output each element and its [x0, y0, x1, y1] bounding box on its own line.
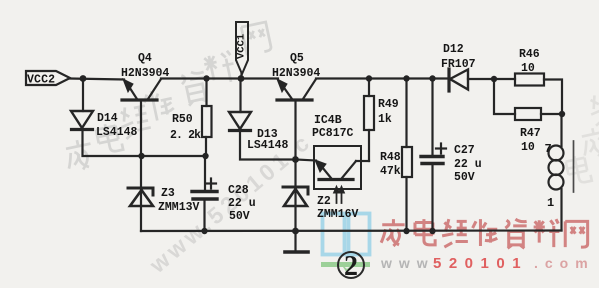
wire D12 to R46 node [468, 78, 515, 80]
wire R47 left leads [494, 79, 515, 114]
wire C28 bottom lead [203, 200, 205, 231]
svg-text:1: 1 [547, 196, 554, 210]
wire Q4 collector rail to Q5 emitter [161, 77, 278, 79]
LED light arrows [334, 186, 345, 203]
wire D14 top lead [82, 79, 84, 112]
capacitor C27 [421, 144, 446, 164]
svg-text:LS4148: LS4148 [247, 139, 289, 152]
wire D14 bottom lead [83, 131, 207, 156]
resistor R46 [515, 74, 544, 86]
resistor R48 [402, 147, 412, 177]
node R47 right [559, 111, 565, 117]
node R49 top [366, 75, 372, 81]
node VCC2/D14 [80, 75, 87, 82]
svg-text:IC4B: IC4B [314, 114, 342, 127]
svg-text:22 u: 22 u [228, 197, 256, 210]
node C27 top [429, 75, 435, 81]
svg-text:Q4: Q4 [138, 52, 152, 65]
svg-text:Z3: Z3 [161, 187, 175, 200]
svg-text:.com: .com [534, 255, 595, 271]
wire D13 top lead [239, 79, 241, 113]
gray diagonal watermark: www.520101.com [144, 127, 317, 278]
svg-text:ZMM13V: ZMM13V [158, 201, 200, 214]
red watermark hanzi row [381, 219, 588, 248]
wire R48 top lead [405, 79, 407, 148]
resistor R50 [202, 106, 212, 137]
svg-text:FR107: FR107 [441, 58, 476, 71]
wire C27 top lead [431, 79, 433, 157]
node ground rail [292, 228, 299, 235]
wire winding pin 1 to bottom rail [560, 189, 562, 231]
diode D13 LS4148 [229, 112, 251, 131]
op-amp IC4B PC817C optocoupler box [314, 146, 361, 189]
svg-text:VCC2: VCC2 [27, 74, 55, 87]
svg-text:VCC1: VCC1 [236, 34, 248, 59]
wire bottom rail [141, 229, 562, 232]
svg-text:1k: 1k [378, 113, 392, 126]
wire R46 right to corner [544, 80, 562, 115]
svg-text:47k: 47k [380, 165, 401, 178]
wire R50 bottom lead [205, 137, 207, 156]
svg-text:Z2: Z2 [317, 195, 331, 208]
svg-text:R50: R50 [172, 113, 193, 126]
node Q4 base / Z3 [138, 153, 144, 159]
svg-text:Q5: Q5 [290, 52, 304, 65]
svg-text:R47: R47 [520, 127, 541, 140]
diode D14 LS4148 [71, 111, 93, 130]
node C27 bottom [429, 228, 435, 234]
svg-text:50V: 50V [229, 210, 250, 223]
core line [573, 141, 575, 192]
wire opto emitter to Q5 base node [296, 160, 317, 161]
svg-text:LS4148: LS4148 [96, 126, 138, 139]
svg-text:ZMM16V: ZMM16V [317, 208, 359, 221]
ground [285, 231, 308, 252]
inductor winding T pins 7-1 [549, 146, 564, 190]
node Q5 base / Z2 / opto [292, 156, 299, 163]
node VCC1 flag [236, 22, 248, 78]
wire opto collector to R49 [356, 160, 369, 162]
svg-text:R48: R48 [380, 151, 401, 164]
wire D13 bottom lead to node [240, 131, 296, 160]
wire R47 right lead [541, 113, 562, 115]
svg-text:H2N3904: H2N3904 [272, 67, 320, 80]
svg-text:10: 10 [521, 141, 535, 154]
svg-text:50V: 50V [454, 171, 475, 184]
svg-text:2. 2k: 2. 2k [170, 129, 201, 142]
gray diagonal watermark: 家电维修资料网 [63, 22, 271, 172]
node D12/R46/R47 [491, 76, 497, 82]
svg-text:C28: C28 [228, 184, 249, 197]
wire Q4 base [140, 101, 142, 156]
node R50 top [203, 75, 209, 81]
node R50 bottom / C28 [202, 153, 208, 159]
page marker circle 2 [338, 251, 364, 282]
diode D12 FR107 [449, 69, 468, 91]
svg-text:D14: D14 [97, 112, 118, 125]
wire C27 bottom lead [431, 164, 433, 231]
wire R50 top lead [205, 79, 207, 107]
node VCC2 flag [26, 71, 70, 85]
transistor phototransistor IC4B [315, 160, 356, 180]
node R48 bottom [403, 228, 409, 234]
svg-text:22 u: 22 u [454, 158, 482, 171]
transistor Q4 H2N3904 [122, 79, 161, 100]
node VCC1/D13 [238, 75, 245, 82]
transistor Q5 H2N3904 [277, 79, 316, 100]
wire Q5 base [294, 101, 296, 159]
zener Z3 ZMM13V [128, 156, 153, 231]
wire VCC2 to Q4 emitter [70, 79, 124, 80]
svg-text:PC817C: PC817C [312, 127, 354, 140]
svg-text:7: 7 [545, 142, 552, 156]
wire R49 top lead [368, 79, 370, 97]
svg-text:R46: R46 [519, 48, 540, 61]
node C28 bottom [201, 228, 207, 234]
wire R49 bottom lead [368, 130, 370, 161]
zener Z2 ZMM16V [283, 159, 308, 231]
svg-text:H2N3904: H2N3904 [121, 67, 169, 80]
svg-text:C27: C27 [454, 144, 475, 157]
svg-text:D12: D12 [443, 43, 464, 56]
svg-text:2: 2 [344, 251, 358, 282]
cyan logo squares [323, 214, 370, 255]
svg-text:10: 10 [521, 62, 535, 75]
wire C28 top lead [204, 156, 206, 190]
resistor R47 [515, 108, 541, 120]
resistor R49 [364, 96, 374, 130]
red/gray url row [380, 255, 595, 272]
wire to winding pin 7 [560, 114, 562, 146]
svg-text:520101: 520101 [433, 255, 528, 272]
capacitor C28 [192, 179, 217, 200]
wire R48 bottom lead [405, 177, 407, 231]
svg-text:R49: R49 [378, 98, 399, 111]
node R48 top [403, 75, 409, 81]
wire Q5 collector rail to D12 [316, 77, 449, 79]
green check bar [321, 262, 370, 273]
